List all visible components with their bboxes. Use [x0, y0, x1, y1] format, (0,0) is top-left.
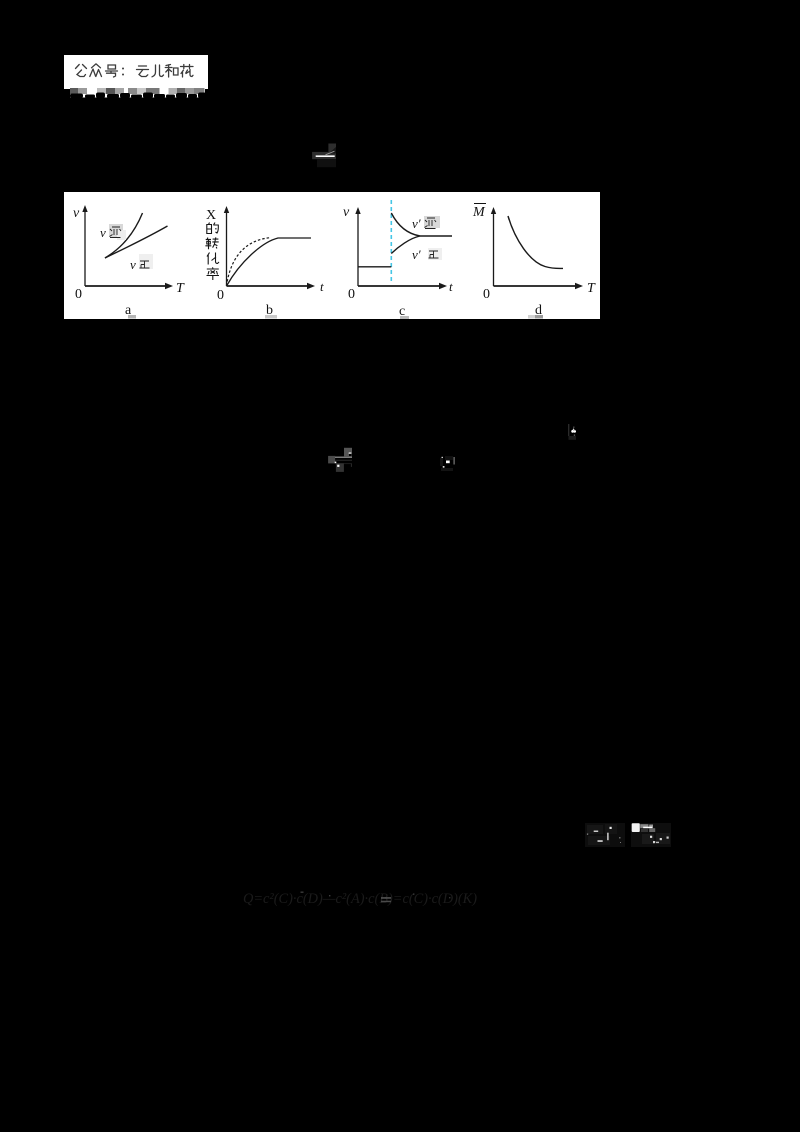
faint glyph fragment middle: [438, 453, 458, 471]
y axis: [226, 211, 228, 286]
gray highlight blocks row (second clipped line): [70, 88, 205, 94]
：: [122, 69, 124, 75]
curve v-forward: [105, 226, 168, 258]
svg-text:T: T: [176, 281, 185, 296]
faint fraction cluster left (K expression): [583, 820, 627, 850]
x axis: [85, 285, 167, 287]
white blob fragment: [564, 420, 580, 442]
x axis: [227, 285, 310, 287]
云: [137, 66, 149, 77]
化: [207, 253, 219, 265]
white header box with Chinese text: [64, 55, 208, 98]
svg-text:T: T: [587, 281, 596, 296]
clipped bold glyph tops (black bumps): [70, 93, 206, 99]
和: [165, 65, 178, 78]
x axis: [358, 285, 441, 287]
cyan dashed vertical: [390, 200, 392, 283]
svg-text:Q=c²(C)·c(D)—c²(A)·c(B)=c(C)·c: Q=c²(C)·c(D)—c²(A)·c(B)=c(C)·c(D)(K): [243, 891, 477, 907]
dashed conversion curve: [227, 238, 272, 286]
solid conversion curve: [227, 238, 312, 286]
faint fraction fragment left: [326, 445, 356, 475]
svg-text:0: 0: [75, 287, 82, 302]
highlight + label v'(zheng): [428, 248, 442, 260]
svg-text:v: v: [130, 257, 136, 272]
graph c: rate vs time with disturbance: [343, 200, 453, 320]
highlight behind subscript of v-reverse: [109, 224, 123, 237]
lower curve v'(zheng): [391, 236, 420, 254]
众: [90, 64, 102, 77]
white strip with four graphs: [64, 192, 600, 319]
svg-text:t: t: [320, 279, 324, 294]
y axis: [493, 212, 495, 286]
率: [207, 267, 220, 280]
graph b: conversion vs time: [205, 206, 324, 319]
x axis: [494, 285, 578, 287]
svg-text:v′: v′: [412, 247, 421, 262]
graph a: rate vs temperature: [73, 205, 185, 319]
儿: [152, 65, 164, 77]
fraction cluster right with bright box: [628, 820, 674, 850]
text 公众号：云儿和花: [76, 64, 194, 77]
y axis: [357, 212, 359, 286]
equilibrium plateau: [420, 235, 452, 237]
faint formula row: [240, 884, 485, 910]
svg-text:v′: v′: [412, 216, 421, 231]
svg-text:0: 0: [348, 287, 355, 302]
花: [181, 65, 194, 78]
highlight + label v'(ni): [424, 216, 440, 228]
highlight behind subscript of v-forward: [139, 254, 153, 269]
svg-text:0: 0: [483, 287, 490, 302]
svg-text:0: 0: [217, 288, 224, 303]
svg-text:X: X: [206, 208, 216, 223]
公: [76, 65, 87, 77]
upper curve v'(ni): [391, 213, 420, 236]
initial rate horizontal line: [358, 266, 391, 268]
转: [205, 237, 218, 249]
svg-text:M: M: [472, 205, 486, 220]
svg-text:v: v: [73, 206, 80, 221]
y axis: [84, 210, 86, 286]
strip background: [64, 192, 600, 319]
svg-text:v: v: [343, 205, 350, 220]
svg-text:v: v: [100, 225, 106, 240]
号: [106, 65, 118, 77]
的: [207, 223, 219, 234]
graph d: mean molar mass vs temperature: [472, 204, 596, 319]
faint arrow fragment: [308, 140, 340, 170]
decreasing curve: [508, 216, 563, 268]
svg-text:t: t: [449, 279, 453, 294]
curve v-reverse: [105, 213, 143, 258]
